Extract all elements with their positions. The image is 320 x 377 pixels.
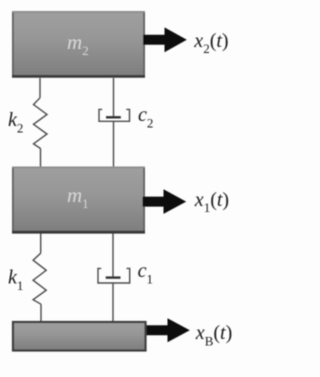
mass block m1 left edge [12,167,14,234]
svg-text:k2: k2 [8,109,23,136]
svg-text:c1: c1 [138,260,153,287]
wire: damper c1 bottom rod [112,283,114,322]
mass block m2 right edge [143,11,145,78]
wire: damper c1 top rod [112,233,114,277]
mass block m2 [12,11,145,78]
mass block m1 bottom dark edge [12,231,145,234]
damper c1 cylinder [98,268,130,283]
wire: spring k2 bottom rod [40,149,42,168]
damper c2 cylinder [99,109,130,121]
damper c1 piston [106,276,121,278]
wire: spring k1 top rod [40,233,42,253]
wire: damper c2 top rod [113,78,115,117]
spring k2 [34,98,48,149]
mass block m1 [12,167,145,234]
mass block m2 bottom dark edge [12,75,145,78]
arrow x1 [143,189,187,214]
damper c2 piston [106,116,121,118]
svg-text:c2: c2 [138,104,153,131]
wire: damper c2 bottom rod [113,121,115,167]
wire: spring k2 top rod [39,78,41,98]
mass block m2 top edge [12,11,145,13]
wire: spring k1 bottom rod [40,304,42,322]
mass block m2 left edge [12,11,14,78]
arrow x2 [143,27,187,52]
svg-text:x1(t): x1(t) [194,189,229,215]
mass block m1 top edge [12,166,145,168]
spring k1 [33,253,46,304]
base block [13,322,146,351]
arrow xB [147,318,190,342]
svg-text:x2(t): x2(t) [193,30,228,56]
svg-text:xB(t): xB(t) [195,322,232,349]
mass block m1 right edge [143,167,145,234]
svg-text:k1: k1 [8,267,23,294]
